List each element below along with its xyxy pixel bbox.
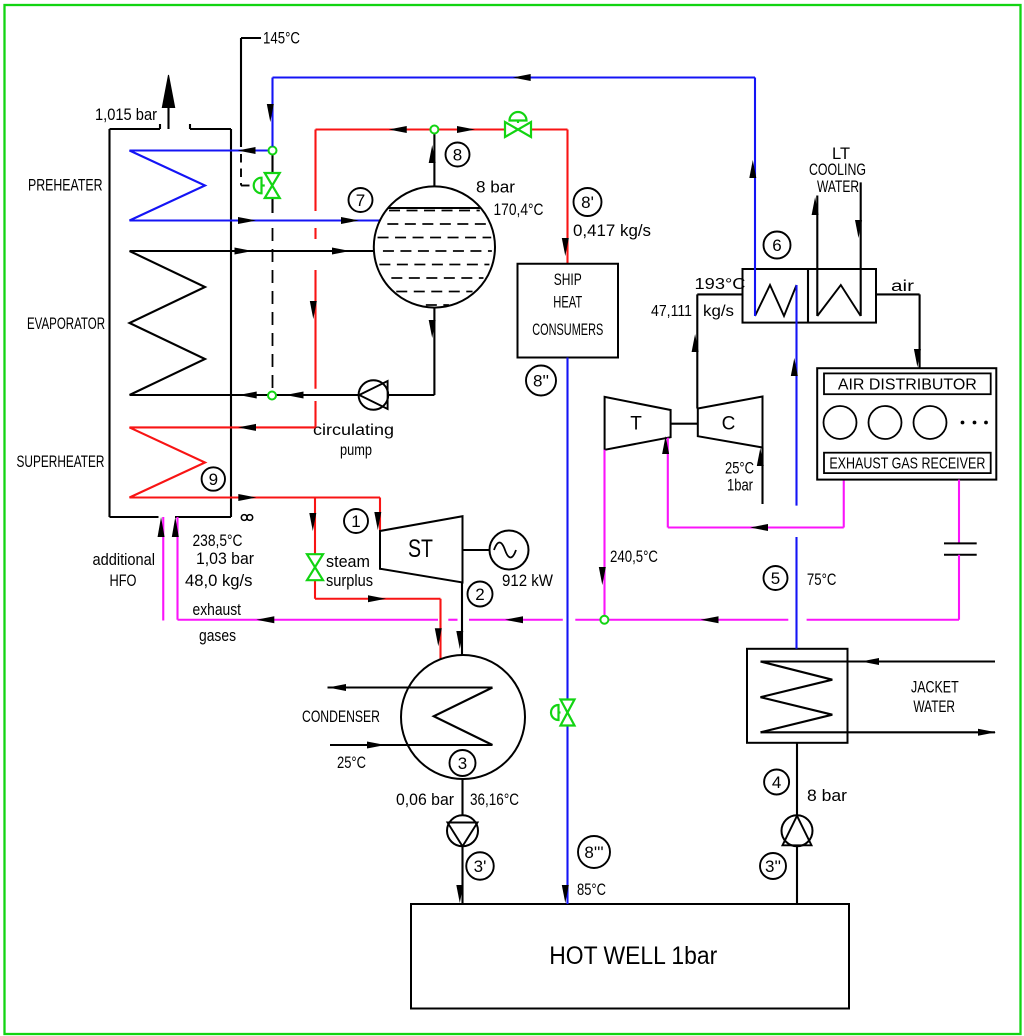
arrow jacket in [861,658,879,665]
drum steam riser [433,130,435,186]
feed pipe hotwell to pump [796,846,798,904]
svg-text:1,015 bar: 1,015 bar [95,106,157,124]
saturated steam pipe drum header to superheater [231,130,316,428]
node evaporator feed join [268,392,276,400]
label EVAPORATOR [27,315,105,333]
arrow down saturated steam [310,301,317,319]
node T outlet join [600,616,608,624]
svg-text:COOLING: COOLING [809,161,866,179]
label 85C [577,881,606,899]
svg-text:SHIP: SHIP [554,271,582,289]
label COOLING [809,161,866,179]
state 2 [468,582,493,607]
label CONDENSER [302,708,380,726]
svg-text:kg/s: kg/s [703,303,734,320]
svg-text:CONSUMERS: CONSUMERS [532,321,603,339]
state 6 [764,232,791,259]
arrow into consumers [562,238,569,256]
label 25C intake [725,460,754,478]
state 5 [764,566,788,590]
svg-text:C: C [722,414,736,435]
boiler stack arrow [162,75,174,129]
svg-text:8: 8 [453,146,462,165]
label PREHEATER [28,177,103,195]
arrow condensate return left [513,74,531,81]
state 8doubleprime [526,366,556,396]
arrow exhaust to T [750,524,768,531]
turbine inlet pipe [379,498,381,532]
label WATER LT [817,178,859,196]
svg-text:25°C: 25°C [337,754,366,772]
arrow air intake [757,448,764,466]
arrow feedwater riser [791,358,798,376]
label steam [326,553,370,571]
node drum steam tee [430,126,438,134]
label 0,06 bar [396,791,454,809]
arrow condensate down [267,104,274,122]
arrow surplus right [368,595,386,602]
label 47,111 [651,303,692,320]
turbocharger compressor C [698,397,763,448]
state 3doubleprime [760,853,786,879]
condensate return main [273,78,756,147]
label 170,4C [494,201,544,219]
feedwater valve actuator [254,178,265,194]
label surplus [326,572,373,590]
generator [490,531,529,570]
svg-text:8'': 8'' [533,372,549,391]
arrow header left [389,126,407,133]
svg-text:3'': 3'' [765,857,781,876]
arrow superheater outlet [238,494,256,501]
LT cooling water outlet [816,196,818,317]
jacket water coil [761,662,996,733]
svg-text:3: 3 [458,754,467,773]
svg-text:8 bar: 8 bar [807,787,848,805]
svg-text:36,16°C: 36,16°C [470,791,519,809]
svg-text:T: T [630,414,642,435]
svg-text:ST: ST [408,535,433,563]
state 4 [764,770,789,795]
arrow exhaust main 3 [701,616,719,623]
state 8prime [574,188,602,216]
turbine exhaust pipe [461,583,463,656]
svg-text:SUPERHEATER: SUPERHEATER [17,453,105,471]
air distributor outer box [817,368,996,479]
label 240,5C [610,548,658,566]
arrow preheater outlet [238,217,256,224]
label 0,417 kg/s [573,222,651,240]
arrow into preheater [238,147,256,154]
exhaust bypass pipe upper [958,480,960,544]
label 1,03 bar [196,550,254,568]
svg-text:3': 3' [474,857,487,876]
svg-text:4: 4 [772,773,781,792]
svg-text:AIR DISTRIBUTOR: AIR DISTRIBUTOR [838,377,977,394]
label kg/s [703,303,734,320]
label HFO [110,572,137,590]
additional HFO pipe [162,517,164,621]
svg-text:HFO: HFO [110,572,137,590]
svg-text:1bar: 1bar [727,477,753,495]
arrow jacket out [978,729,996,736]
steam surplus pipe [315,498,441,660]
state 7 [349,188,373,212]
label gases [199,627,236,645]
arrow cooling water out [328,684,346,691]
engine cylinder 3 [914,406,947,439]
label additional [93,551,156,569]
svg-text:145°C: 145°C [263,30,300,48]
cooler LT coil [817,285,860,316]
circulation pipe drum to evaporator [130,308,435,395]
label 75C [807,571,837,589]
feedwater inlet pipe [231,149,269,151]
arrow into superheater [238,424,256,431]
svg-text:0,417 kg/s: 0,417 kg/s [573,222,651,240]
charge air pipe to cooler [697,294,742,408]
label JACKET [911,678,959,696]
label 48,0 kg/s [185,572,253,590]
label SUPERHEATER [17,453,105,471]
svg-text:8''': 8''' [584,843,603,862]
svg-text:HEAT: HEAT [553,294,582,312]
arrow steam surplus down [309,513,316,531]
feedwater pipe through valve [271,154,273,213]
label 1,015 bar [95,106,157,124]
svg-text:238,5°C: 238,5°C [193,532,243,550]
svg-text:9: 9 [209,470,218,489]
feedwater riser jacket to cooler [795,285,797,649]
superheated steam outlet pipe [231,496,380,498]
arrow cooling water in [367,742,385,749]
label HEAT [553,294,582,312]
exhaust bypass pipe lower [958,555,960,620]
arrow T outlet [599,567,606,585]
node feedwater tee [269,147,277,155]
preheater coil [130,151,232,221]
label CONSUMERS [532,321,603,339]
svg-text:EXHAUST GAS RECEIVER: EXHAUST GAS RECEIVER [829,456,985,473]
label 145C [263,30,300,48]
svg-text:6: 6 [772,236,781,255]
svg-text:pump: pump [340,442,372,459]
arrow HFO into boiler [158,517,165,537]
svg-text:193°C: 193°C [695,276,746,293]
preheater outlet pipe to drum [231,219,380,221]
condensate to hotwell [461,846,463,904]
label exhaust [193,601,242,619]
label 8 bar feed [807,787,848,805]
steam turbine ST [380,516,463,582]
ellipsis dots [961,421,988,425]
hot well tank [411,904,849,1009]
state 3prime [466,852,494,880]
exhaust gas receiver box [824,453,991,473]
evaporator coil [130,251,206,395]
steam drum [374,186,495,307]
engine cylinder 2 [869,406,902,439]
evaporator riser pipe to drum [130,250,375,252]
svg-text:WATER: WATER [817,178,859,196]
turbocharger shaft [671,423,698,425]
condensate pump [447,815,478,846]
state 1 [344,509,368,533]
drain valve actuator [551,705,561,720]
label 8 bar drum [476,179,516,197]
steam surplus valve [307,554,323,580]
label WATER jacket [913,698,955,716]
svg-text:7: 7 [356,191,365,210]
label 1bar intake [727,477,753,495]
arrow LT in [855,220,862,238]
bypass orifice [944,543,977,554]
state 8tripleprime [578,836,610,868]
engine cylinder 1 [824,406,857,439]
feedwater pipe cooler to pump [796,743,798,816]
label LT [832,145,850,163]
exhaust gas boiler casing [110,124,232,517]
feed pump [782,815,813,846]
svg-text:5: 5 [771,569,780,588]
jacket water cooler box [747,649,848,743]
feedwater temperature lead line [241,38,261,147]
arrow drum downcomer [429,320,436,338]
svg-text:additional: additional [93,551,156,569]
svg-text:1,03 bar: 1,03 bar [196,550,254,568]
generator shaft [463,549,490,551]
label pump [340,442,372,459]
state 9 [202,467,225,490]
svg-text:PREHEATER: PREHEATER [28,177,103,195]
arrow exhaust into boiler [172,517,179,537]
svg-text:0,06 bar: 0,06 bar [396,791,454,809]
label 25C condenser [337,754,366,772]
svg-text:75°C: 75°C [807,571,837,589]
svg-text:surplus: surplus [326,572,373,590]
arrow into turbine T [662,436,669,454]
arrow into condenser red [435,628,442,646]
drain valve [561,700,575,726]
svg-text:8': 8' [581,193,594,212]
svg-text:steam: steam [326,553,370,571]
air pipe to distributor [876,294,920,368]
consumers drain pipe [566,358,568,905]
arrow turbine inlet [374,512,381,530]
arrow steam riser [429,145,436,163]
LT cooling water inlet [860,182,862,316]
charge air cooler box [743,269,877,323]
arrow feedwater to preheater [749,160,756,178]
svg-text:circulating: circulating [313,422,394,439]
arrow circulation 1 [239,392,257,399]
label SHIP [554,271,582,289]
svg-text:170,4°C: 170,4°C [494,201,544,219]
svg-text:JACKET: JACKET [911,678,959,696]
svg-text:48,0 kg/s: 48,0 kg/s [185,572,253,590]
svg-text:2: 2 [475,585,484,604]
svg-text:240,5°C: 240,5°C [610,548,658,566]
arrow into steam drum [341,217,359,224]
feedwater riser cooler to preheater [754,78,756,317]
arrow exhaust main 2 [505,616,523,623]
arrow exhaust main 1 [256,616,274,623]
label 36,16C [470,791,519,809]
air distributor inner box [824,373,991,394]
exhaust riser to boiler [176,517,178,620]
exhaust pipe receiver to T [668,438,844,528]
label 912 kW [502,572,553,590]
turbocharger turbine T [605,397,671,450]
label 193C [695,276,746,293]
air intake pipe [761,448,763,505]
arrow circulation 2 [286,392,304,399]
arrow drain into hotwell [562,885,569,903]
level control sensing line [241,154,252,186]
svg-text:85°C: 85°C [577,881,606,899]
feedwater line to evaporator circuit [272,228,274,396]
steam header pipe [316,130,568,264]
svg-text:exhaust: exhaust [193,601,242,619]
condenser shell [401,655,525,779]
svg-text:WATER: WATER [913,698,955,716]
infinity mark [241,515,252,521]
label air [891,278,914,295]
label circulating [313,422,394,439]
arrow turbine exhaust [456,631,463,649]
arrow header right [457,126,475,133]
svg-text:47,111: 47,111 [651,303,692,320]
svg-text:1: 1 [351,512,360,531]
pressure control valve [505,112,531,137]
state 3 [450,750,476,776]
svg-text:CONDENSER: CONDENSER [302,708,380,726]
label HOT WELL 1bar [549,942,717,970]
condensate pipe [461,779,463,815]
circulating pump [359,380,389,410]
arrow LT out [812,197,819,215]
arrow air down [914,349,921,367]
arrow evaporator riser 1 [235,248,253,255]
svg-text:8 bar: 8 bar [476,179,516,197]
arrow condensate into hotwell [456,885,463,903]
svg-text:25°C: 25°C [725,460,754,478]
arrow charge air up [692,334,699,352]
superheater coil [130,427,232,497]
svg-text:air: air [891,278,914,295]
turbine T outlet pipe [603,450,605,620]
svg-text:gases: gases [199,627,236,645]
svg-text:HOT WELL 1bar: HOT WELL 1bar [549,942,717,970]
label 238,5C [193,532,243,550]
exhaust gas main line [178,619,960,621]
cooler feedwater coil [755,285,797,316]
ship heat consumers box [518,264,619,358]
svg-text:EVAPORATOR: EVAPORATOR [27,315,105,333]
state 8 [446,143,470,167]
arrow evaporator riser 2 [332,248,350,255]
condenser coil [328,688,493,746]
svg-text:912 kW: 912 kW [502,572,553,590]
feedwater control valve [265,173,280,198]
